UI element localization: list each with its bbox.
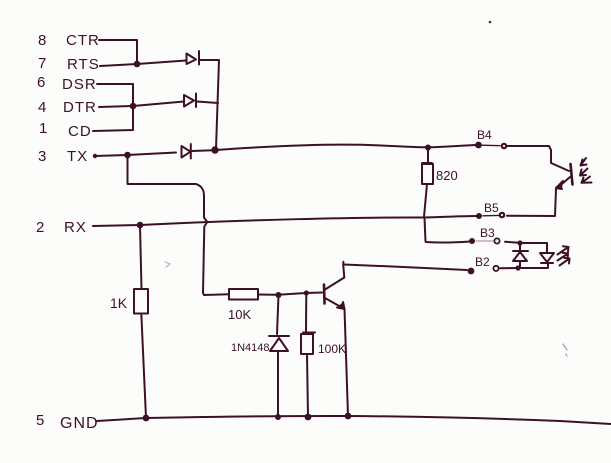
svg-text:8: 8 bbox=[38, 32, 47, 49]
svg-text:CD: CD bbox=[68, 123, 92, 140]
svg-text:820: 820 bbox=[436, 168, 458, 183]
svg-text:TX: TX bbox=[67, 148, 88, 165]
svg-text:B4: B4 bbox=[477, 128, 492, 142]
svg-text:10K: 10K bbox=[228, 307, 251, 322]
svg-text:CTR: CTR bbox=[66, 32, 100, 49]
svg-text:1: 1 bbox=[39, 120, 48, 137]
svg-text:DSR: DSR bbox=[62, 76, 97, 93]
svg-text:B5: B5 bbox=[484, 201, 499, 215]
svg-text:7: 7 bbox=[38, 55, 47, 72]
svg-text:B2: B2 bbox=[475, 255, 490, 269]
svg-text:2: 2 bbox=[36, 219, 45, 236]
svg-text:5: 5 bbox=[36, 412, 45, 429]
svg-text:100K: 100K bbox=[318, 342, 346, 356]
svg-text:4: 4 bbox=[38, 99, 47, 116]
svg-text:6: 6 bbox=[37, 74, 46, 91]
svg-text:B3: B3 bbox=[480, 226, 495, 240]
svg-text:RTS: RTS bbox=[67, 56, 100, 73]
svg-text:3: 3 bbox=[38, 148, 47, 165]
svg-text:GND: GND bbox=[60, 415, 99, 432]
svg-text:1K: 1K bbox=[110, 295, 128, 311]
svg-text:RX: RX bbox=[64, 219, 87, 236]
svg-text:1N4148: 1N4148 bbox=[231, 342, 270, 354]
svg-text:DTR: DTR bbox=[63, 99, 97, 116]
